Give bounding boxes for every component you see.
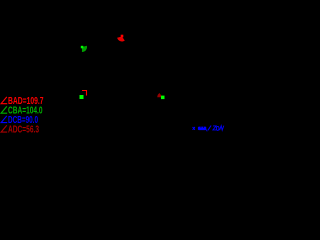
- watermark glyph 2: [213, 126, 217, 130]
- angle CBA sector (green) at vertex B: [82, 46, 87, 52]
- point D: [161, 96, 165, 100]
- watermark X: [193, 127, 195, 130]
- watermark zigzag: [220, 126, 224, 131]
- point A: [121, 35, 124, 38]
- angle symbol line 2: [1, 106, 7, 113]
- angle ADC sector (dark red) at vertex D: [157, 93, 162, 97]
- watermark blob notch 2: [202, 127, 205, 128]
- svg-text:ADC=56.3: ADC=56.3: [8, 124, 39, 135]
- watermark blob notch 1: [200, 127, 203, 128]
- angle symbol line 3: [1, 116, 7, 123]
- watermark glyph 0: [216, 126, 219, 130]
- angle DCB right-angle marker (red) at vertex C: [82, 91, 87, 96]
- watermark blob tail: [205, 130, 208, 132]
- point C: [80, 95, 84, 99]
- watermark slash: [208, 126, 211, 131]
- watermark blob: [198, 127, 206, 131]
- angle BAD sector (red) at vertex A: [117, 37, 125, 42]
- angle symbol line 4: [1, 125, 7, 132]
- point B: [81, 46, 84, 49]
- angle symbol line 1: [1, 97, 7, 104]
